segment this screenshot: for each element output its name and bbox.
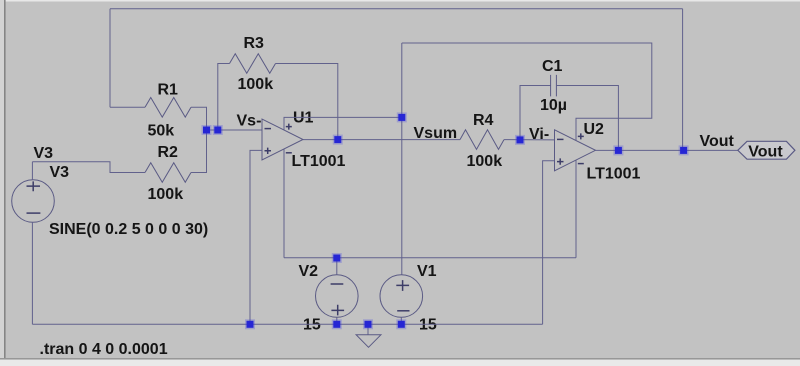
wire R3 left vertical: [218, 64, 230, 131]
svg-text:100k: 100k: [467, 153, 503, 170]
svg-text:LT1001: LT1001: [587, 166, 641, 183]
window left light margin: [0, 0, 4, 360]
window bottom border line: [0, 358, 800, 360]
svg-text:Vout: Vout: [700, 133, 735, 150]
wire V3 bottom down to ground rail: [31, 222, 33, 324]
capacitor C1 right lead down to U2 output: [556, 86, 618, 151]
svg-text:50k: 50k: [148, 123, 175, 140]
node junction Vout feedback: [679, 145, 689, 155]
svg-text:R4: R4: [473, 112, 494, 129]
U1 V- power marker: [286, 152, 292, 154]
svg-text:.tran 0 4 0 0.0001: .tran 0 4 0 0.0001: [40, 341, 168, 358]
wire ground rail: [32, 323, 542, 325]
svg-text:Vsum: Vsum: [414, 125, 458, 142]
svg-text:Vs-: Vs-: [237, 113, 262, 130]
svg-text:100k: 100k: [238, 76, 274, 93]
svg-text:Vi-: Vi-: [529, 126, 549, 143]
wire V3 to R2 with jog: [32, 162, 145, 173]
wire V2 bottom stub: [336, 317, 338, 324]
node junction R1/R2: [202, 125, 212, 135]
wire V1 bottom stub: [400, 317, 402, 324]
wire U1 non-inverting input down to rail: [250, 150, 262, 324]
svg-text:SINE(0 0.2 5 0 0 0 30): SINE(0 0.2 5 0 0 0 30): [49, 221, 208, 238]
U1 inverting input marker: [265, 128, 272, 130]
node junction R3 tap: [213, 125, 223, 135]
node junction ground on rail: [363, 319, 373, 329]
svg-text:C1: C1: [542, 58, 563, 75]
wire positive supply over to U2: [402, 43, 652, 140]
output port flag Vout: [738, 141, 795, 159]
wire R2 right lead and rise to node: [191, 130, 207, 173]
svg-text:V3: V3: [50, 164, 70, 181]
wire top-right vertical to Vout node: [682, 9, 684, 151]
wire U1 V- pin down: [283, 149, 285, 258]
wire R3 right lead and drop to U1 output: [276, 64, 338, 140]
svg-text:15: 15: [419, 316, 437, 333]
node junction V+ rail tap: [397, 112, 407, 122]
voltage source V1: [380, 275, 423, 318]
resistor R1: [145, 98, 191, 118]
ground symbol: [356, 335, 381, 348]
svg-text:LT1001: LT1001: [292, 153, 346, 170]
node junction U2 output C1: [613, 145, 623, 155]
resistor R2: [145, 163, 191, 183]
node junction V2 bottom on rail: [332, 319, 342, 329]
V3 minus marker: [27, 212, 41, 214]
V1 plus marker: [396, 280, 409, 291]
svg-text:R1: R1: [158, 82, 179, 99]
wire U1 output to R4: [303, 139, 460, 141]
wire R1 right lead and drop to node: [191, 107, 207, 130]
svg-text:10µ: 10µ: [540, 97, 567, 114]
resistor R4: [460, 130, 504, 150]
voltage source V3: [12, 180, 55, 223]
svg-text:V1: V1: [417, 263, 437, 280]
wire R4 right lead to Vi- node: [504, 139, 555, 141]
node junction V2 top: [332, 253, 342, 263]
op-amp U2 triangle: [555, 130, 596, 171]
resistor R3: [230, 54, 276, 74]
capacitor C1 left lead: [520, 86, 551, 140]
U1 non-inverting input marker: [265, 148, 272, 154]
V2 plus marker: [331, 305, 344, 316]
svg-text:15: 15: [303, 316, 321, 333]
window bottom strip: [0, 360, 800, 366]
svg-text:V3: V3: [34, 145, 54, 162]
ground stub: [367, 324, 369, 334]
window left border line: [4, 0, 6, 359]
wire U2 output to Vout flag: [596, 149, 738, 151]
U2 V+ power marker: [578, 133, 584, 139]
svg-text:Vout: Vout: [748, 144, 783, 161]
wire top feedback horizontal: [110, 8, 683, 10]
svg-text:100k: 100k: [148, 186, 184, 203]
svg-text:R3: R3: [244, 35, 265, 52]
node junction V1 bottom on rail: [396, 319, 406, 329]
capacitor C1 plates: [551, 75, 557, 97]
wire V2 top stub: [336, 258, 338, 275]
wire R1 left lead: [110, 106, 145, 108]
U2 non-inverting input marker: [557, 158, 564, 164]
svg-text:U2: U2: [584, 121, 605, 138]
op-amp U1 triangle: [262, 119, 303, 160]
svg-text:R2: R2: [158, 144, 179, 161]
wire summing node to U1 inverting input: [207, 129, 263, 131]
window top edge highlight: [0, 0, 800, 2]
wire V1 plus vertical: [401, 43, 403, 275]
svg-text:V2: V2: [299, 263, 319, 280]
V1 minus marker: [397, 310, 409, 312]
node junction U1 output: [333, 135, 343, 145]
node junction U1 noninv on rail: [245, 319, 255, 329]
U2 V- power marker: [578, 163, 584, 165]
wire U2 V- pin down: [575, 160, 577, 258]
V2 minus marker: [331, 283, 344, 285]
V3 plus marker: [27, 181, 41, 191]
wire U2 non-inverting input left and down to rail: [543, 161, 555, 324]
wire top-left vertical to R1: [109, 9, 111, 108]
voltage source V2: [316, 275, 359, 318]
wire V3 top stub: [31, 162, 33, 180]
U1 V+ power marker: [286, 124, 292, 130]
wire negative supply rail horizontal: [284, 257, 576, 259]
wire U1 V+ pin up and right to V1: [284, 117, 402, 130]
U2 inverting input marker: [557, 138, 564, 140]
node junction Vi-: [515, 135, 525, 145]
